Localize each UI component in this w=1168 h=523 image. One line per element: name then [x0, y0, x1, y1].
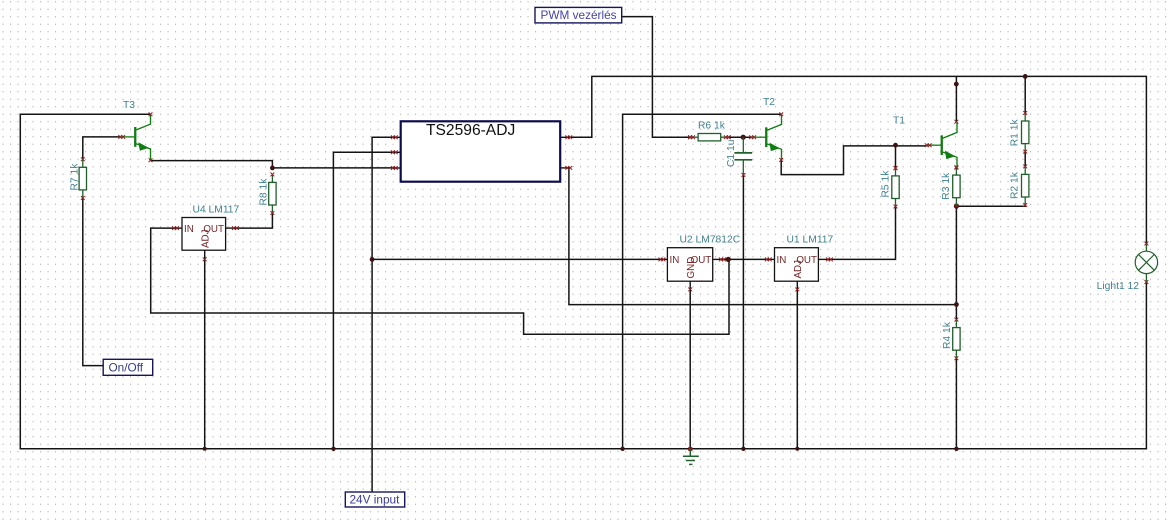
- node PWM vezérlés: [535, 7, 622, 23]
- wire: U4 ADJ to bottom rail: [204, 259, 206, 449]
- svg-text:R2 1k: R2 1k: [1010, 171, 1021, 199]
- wire: T2 emitter to T1 base: [781, 146, 927, 175]
- R6 left pin: [688, 135, 695, 139]
- svg-text:TS2596-ADJ: TS2596-ADJ: [426, 122, 515, 139]
- resistor R7: [70, 157, 87, 199]
- wire: C1 bottom down to bottom rail: [742, 175, 744, 449]
- svg-text:R5 1k: R5 1k: [881, 170, 892, 198]
- transistor T2: [751, 97, 781, 160]
- resistor R8: [259, 173, 277, 215]
- op-amp U4 (regulator LM117): [172, 205, 239, 262]
- node bottom rail / TS pin2: [331, 447, 335, 451]
- svg-text:ADJ: ADJ: [793, 260, 804, 279]
- wire: PWM label down to R6: [622, 17, 690, 138]
- op-amp U3 (TS2596-ADJ converter block): [391, 121, 572, 181]
- svg-text:R6 1k: R6 1k: [698, 121, 726, 132]
- svg-text:U2 LM7812C: U2 LM7812C: [680, 235, 741, 246]
- svg-text:R7 1k: R7 1k: [70, 163, 81, 191]
- node top rail / R1 junction: [1023, 74, 1028, 79]
- svg-text:PWM vezérlés: PWM vezérlés: [541, 8, 617, 22]
- op-amp U1 (regulator LM117): [765, 235, 834, 292]
- wire: U2 GND to ground rail: [689, 289, 691, 448]
- resistor R6: [688, 121, 730, 141]
- svg-text:On/Off: On/Off: [109, 360, 144, 374]
- wire: R6 right to T2 base: [729, 136, 751, 138]
- T1 collector pin: [955, 120, 959, 124]
- wire: TS2596 pin 1 to 24V input vertical: [372, 137, 396, 492]
- transistor T3: [120, 100, 150, 160]
- svg-text:T3: T3: [123, 100, 135, 111]
- node R8 top junction: [270, 166, 275, 171]
- svg-text:IN: IN: [670, 255, 680, 266]
- T2 collector pin: [779, 112, 783, 116]
- svg-text:ADJ: ADJ: [200, 229, 211, 248]
- resistor R4: [942, 318, 960, 360]
- svg-text:T2: T2: [763, 97, 775, 108]
- svg-text:U4 LM117: U4 LM117: [193, 205, 240, 216]
- wire: R5 top stub: [895, 146, 897, 168]
- node C1/R6/T2 base junction: [741, 135, 746, 140]
- wire: U1 ADJ to bottom rail: [796, 289, 798, 448]
- T2 emitter pin: [779, 158, 783, 162]
- wire: 24V vertical branch to U2 IN: [372, 258, 660, 260]
- svg-text:U1 LM117: U1 LM117: [787, 235, 834, 246]
- ground: [683, 449, 699, 464]
- wire: top rail to R1: [1024, 76, 1026, 112]
- transistor T1: [893, 116, 957, 169]
- svg-text:24V input: 24V input: [350, 492, 401, 506]
- svg-text:GND: GND: [686, 257, 697, 279]
- R6 right pin: [724, 135, 731, 139]
- node 24V input: [345, 492, 404, 507]
- node bottom rail / C1 branch: [741, 447, 745, 451]
- node bottom rail / R4 bottom: [954, 447, 958, 451]
- wire: U2 OUT to U1 IN: [721, 258, 767, 260]
- wire: R3 bottom junction down through R4: [955, 205, 957, 320]
- wire: R4 bottom to rail: [955, 358, 957, 448]
- wire: R8 bottom to U4 OUT: [234, 213, 273, 228]
- node R5 top junction: [893, 143, 898, 148]
- resistor R1: [1010, 111, 1029, 153]
- node 24V branch to U2 IN: [370, 257, 375, 262]
- wire: T3 emitter to R8 top junction: [151, 161, 273, 168]
- node U2 OUT junction: [726, 257, 731, 262]
- wire: outer loop - left rail, bottom rail, up to lamp: [20, 114, 1146, 449]
- T1 base pin: [925, 143, 932, 147]
- node bottom rail / T2 collector branch: [620, 447, 624, 451]
- wire: R7 bottom down to On/Off label: [83, 198, 103, 366]
- svg-text:Light1 12: Light1 12: [1097, 281, 1140, 292]
- wire: TS2596 out pin 2 down and right to R4 node: [567, 168, 956, 305]
- svg-text:IN: IN: [777, 255, 787, 266]
- wire: T1 collector up to top rail: [955, 76, 957, 121]
- node R3/R2 bottom junction: [954, 204, 959, 209]
- lamp Light1: [1097, 242, 1158, 292]
- wire: T3 base to R7 top: [83, 137, 120, 160]
- svg-text:C1 1u: C1 1u: [726, 139, 737, 167]
- wire: TS2596 pin 2 to bottom rail: [333, 152, 395, 449]
- wire: TS2596 out pin 1 up over top rail to lamp: [567, 76, 1146, 243]
- R5 top wire pin: [894, 166, 898, 170]
- node T1 collector junction: [954, 82, 959, 87]
- node On/Off: [103, 359, 153, 375]
- ground pin mark: [688, 447, 692, 451]
- op-amp U2 (regulator LM7812C): [659, 235, 741, 292]
- wire: R1 to R2: [1024, 152, 1026, 166]
- wire: T2 collector horizontal and down to bottom rail: [623, 114, 782, 449]
- node bottom rail / U1 ADJ: [795, 447, 799, 451]
- resistor R2: [1010, 165, 1029, 207]
- resistor R5: [881, 166, 900, 208]
- T1 emitter pin: [955, 166, 959, 170]
- T3 base pin: [118, 135, 125, 139]
- svg-text:R4 1k: R4 1k: [942, 321, 953, 349]
- T2 base pin: [749, 135, 756, 139]
- T3 emitter pin: [149, 158, 153, 162]
- wire: R8 junction to TS2596 pin 3: [272, 167, 395, 169]
- wire: R5 bottom to U1 OUT: [828, 206, 896, 259]
- svg-text:T1: T1: [893, 116, 905, 127]
- node ground junction: [688, 447, 692, 451]
- node R4 top junction: [954, 302, 959, 307]
- wire: R3/R2 bottom link: [956, 205, 1025, 208]
- svg-text:R3 1k: R3 1k: [941, 172, 952, 200]
- svg-text:R8 1k: R8 1k: [259, 178, 270, 206]
- svg-text:R1 1k: R1 1k: [1010, 119, 1021, 147]
- wire: U4 IN long run down-right to U2 OUT node: [151, 228, 729, 334]
- capacitor C1: [726, 137, 752, 177]
- node bottom rail / U4 ADJ: [203, 447, 207, 451]
- svg-text:IN: IN: [184, 224, 194, 235]
- T3 collector pin: [149, 112, 153, 116]
- resistor R3: [941, 165, 960, 207]
